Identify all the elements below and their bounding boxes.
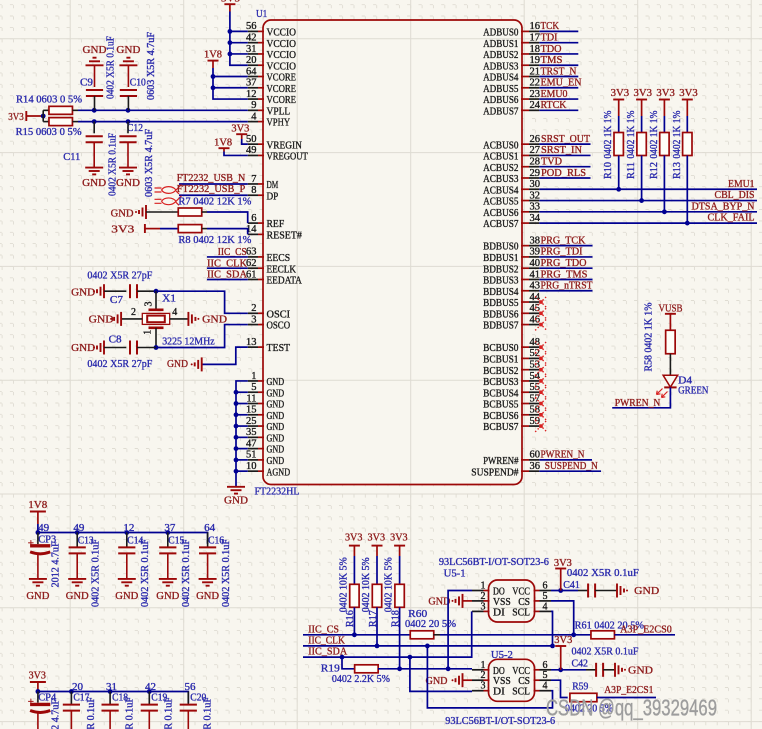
svg-text:PRG_TDI: PRG_TDI	[541, 246, 583, 258]
svg-text:DI: DI	[493, 686, 505, 698]
svg-text:R15 0603 0 5%: R15 0603 0 5%	[16, 126, 82, 138]
net label EMU1	[728, 178, 755, 190]
svg-text:GND: GND	[71, 342, 95, 354]
ground CP3	[26, 579, 49, 602]
svg-text:3V3: 3V3	[656, 87, 675, 99]
svg-text:3V3: 3V3	[111, 224, 135, 236]
svg-text:C8: C8	[109, 333, 122, 345]
svg-text:GND: GND	[116, 177, 140, 189]
svg-text:0402 10K 5%: 0402 10K 5%	[361, 557, 372, 612]
capacitor C18	[102, 692, 136, 729]
junction C11 C12 on VPHY	[92, 119, 131, 124]
capacitor C10	[120, 32, 157, 110]
power 1V8 VCORE	[204, 49, 222, 68]
svg-text:R14 0603 0 5%: R14 0603 0 5%	[16, 93, 82, 105]
wire net CLK_FAIL	[539, 222, 757, 224]
svg-text:0402 X5R 0.1uF: 0402 X5R 0.1uF	[181, 539, 192, 607]
resistor R10	[603, 110, 623, 189]
power 3V3 VREGIN	[231, 123, 249, 139]
svg-text:6: 6	[543, 660, 548, 671]
svg-text:0402 X5R 0.1uF: 0402 X5R 0.1uF	[91, 539, 102, 607]
svg-text:TEST: TEST	[267, 342, 291, 354]
wire U5-1 DO	[448, 591, 472, 669]
svg-text:26: 26	[530, 134, 541, 145]
junction crystal bottom	[154, 345, 159, 350]
svg-text:U5-1: U5-1	[444, 567, 466, 579]
svg-text:ADBUS5: ADBUS5	[483, 83, 519, 95]
watermark	[546, 695, 717, 721]
svg-text:R11: R11	[626, 162, 637, 179]
ground C14	[115, 579, 138, 602]
ground C7	[71, 284, 104, 298]
comment 93LC56BT top	[439, 556, 549, 568]
svg-text:PWREN_N: PWREN_N	[541, 449, 585, 461]
power 3V3 C41	[554, 557, 572, 591]
wire VREGIN	[242, 139, 248, 144]
wire U5-1 CS	[551, 601, 574, 635]
svg-text:23: 23	[530, 89, 541, 100]
net IIC_CS	[207, 246, 248, 258]
svg-text:1V8: 1V8	[204, 49, 222, 61]
node R14/R15 input	[41, 110, 46, 121]
svg-text:RTCK: RTCK	[541, 99, 567, 111]
power 3V3 R13	[679, 87, 698, 116]
svg-text:3V3: 3V3	[345, 532, 363, 544]
svg-text:18: 18	[530, 44, 541, 55]
crystal X1	[121, 291, 215, 347]
diff pair mark DM	[155, 185, 182, 195]
net label A3P_E2CS1	[604, 684, 653, 696]
svg-text:30: 30	[530, 179, 541, 190]
ground C15	[156, 579, 179, 602]
svg-text:0402 X5R 0.1uF: 0402 X5R 0.1uF	[86, 697, 97, 729]
svg-text:6: 6	[543, 581, 548, 592]
capacitor C8	[104, 333, 156, 354]
capacitor C41	[563, 567, 639, 598]
svg-text:0402 2.2K 5%: 0402 2.2K 5%	[332, 673, 390, 685]
svg-text:C42: C42	[572, 657, 589, 669]
svg-text:1V8: 1V8	[214, 136, 232, 148]
svg-text:ACBUS7: ACBUS7	[483, 218, 519, 230]
no-connect BDBUS5-7	[535, 296, 547, 330]
svg-text:R17: R17	[368, 610, 379, 627]
svg-text:BCBUS3: BCBUS3	[483, 376, 519, 388]
svg-text:EEDATA: EEDATA	[267, 275, 302, 287]
junction R10	[616, 187, 621, 192]
svg-text:1: 1	[481, 581, 486, 592]
capacitor C42	[572, 646, 639, 677]
svg-text:SUSPEND#: SUSPEND#	[471, 466, 519, 478]
svg-text:+: +	[28, 538, 34, 550]
wire R8 to RESET#	[207, 229, 248, 235]
svg-text:CBL_DIS: CBL_DIS	[715, 189, 755, 201]
svg-text:R58 0402 1K 1%: R58 0402 1K 1%	[644, 302, 655, 371]
svg-text:C7: C7	[110, 294, 123, 306]
wire U1 ground bus	[236, 381, 248, 487]
net SRST_IN	[539, 144, 590, 156]
power 3V3 R18	[390, 532, 408, 556]
wire IIC_CLK	[303, 644, 555, 649]
no-connect BCBUS0-7	[535, 341, 547, 432]
resistor R11	[626, 110, 646, 200]
svg-text:1: 1	[481, 660, 486, 671]
net FT2232_USB_P	[177, 183, 248, 195]
svg-text:2: 2	[481, 670, 486, 681]
svg-text:A3P_E2CS0: A3P_E2CS0	[620, 624, 672, 636]
svg-text:C11: C11	[63, 151, 80, 163]
svg-text:31: 31	[246, 44, 257, 55]
svg-text:34: 34	[530, 213, 541, 224]
svg-text:3V3: 3V3	[8, 111, 24, 123]
wire VPHY	[78, 121, 248, 123]
svg-text:GND: GND	[267, 432, 285, 444]
svg-text:PRG_TDO: PRG_TDO	[541, 257, 587, 269]
wire crystal bottom to OSCO	[156, 325, 248, 348]
junction 1V8 rail	[36, 530, 171, 535]
ground C42	[615, 663, 653, 677]
comment 93LC56BT bottom	[445, 715, 555, 727]
svg-text:VPLL: VPLL	[267, 105, 291, 117]
net SUSPEND_N	[539, 460, 601, 472]
svg-text:3V3: 3V3	[679, 87, 698, 99]
svg-text:0402 X5R 27pF: 0402 X5R 27pF	[87, 358, 152, 370]
wire IIC_SDA to U5-2 DI	[410, 657, 472, 691]
wire VCCIO bus	[230, 12, 248, 66]
svg-text:0402 1K 1%: 0402 1K 1%	[649, 110, 660, 158]
net TDO	[539, 43, 578, 55]
svg-text:EECS: EECS	[267, 252, 291, 264]
svg-text:GND: GND	[267, 410, 285, 422]
svg-text:AGND: AGND	[267, 466, 291, 478]
svg-text:ADBUS4: ADBUS4	[483, 72, 519, 84]
svg-text:U1: U1	[256, 8, 267, 20]
wire net CBL_DIS	[539, 200, 757, 202]
svg-text:1: 1	[143, 330, 154, 335]
svg-text:FT2232HL: FT2232HL	[255, 486, 300, 498]
capacitor C15	[159, 533, 192, 608]
svg-text:3V3: 3V3	[611, 87, 630, 99]
svg-text:CLK_FAIL: CLK_FAIL	[708, 212, 755, 224]
junction VCORE	[211, 74, 216, 90]
svg-text:3: 3	[481, 601, 486, 612]
svg-text:33: 33	[530, 202, 541, 213]
net label CBL_DIS	[715, 189, 755, 201]
net PRG_TDI	[539, 246, 592, 258]
wire IIC_SDA	[303, 611, 472, 659]
wire net EMU1	[539, 188, 757, 190]
ground U5-2 VSS	[426, 673, 473, 687]
svg-text:BCBUS7: BCBUS7	[483, 421, 519, 433]
net EMU_EN	[539, 77, 581, 89]
svg-text:R16: R16	[345, 610, 356, 627]
svg-text:R13: R13	[672, 162, 683, 179]
svg-text:2: 2	[481, 591, 486, 602]
resistor R59	[565, 680, 656, 714]
resistor R18	[384, 556, 405, 669]
net IIC_SDA	[207, 269, 248, 281]
wire net DTSA_BYP_N	[539, 211, 757, 213]
wire DO net	[397, 666, 472, 671]
svg-text:ACBUS1: ACBUS1	[483, 151, 518, 163]
power 1V8 bank	[28, 499, 47, 524]
svg-text:VCORE: VCORE	[267, 72, 297, 84]
net TMS	[539, 54, 578, 66]
svg-text:VCCIO: VCCIO	[267, 60, 297, 72]
svg-text:2012 4.7uF: 2012 4.7uF	[51, 699, 62, 729]
resistor R15	[16, 118, 82, 138]
svg-text:0603 X5R 4.7uF: 0603 X5R 4.7uF	[144, 129, 155, 197]
wire IIC_CLK to U5-2 SCL	[427, 646, 552, 708]
svg-text:0402 X5R 0.1uF: 0402 X5R 0.1uF	[140, 539, 151, 607]
wire U5-1 SCL	[551, 611, 553, 646]
resistor R7	[146, 195, 251, 216]
junction VCCIO	[228, 29, 233, 56]
ground U5-1 VSS	[428, 594, 472, 608]
svg-text:FT2232_USB_N: FT2232_USB_N	[177, 172, 246, 184]
svg-text:CSDN @qq_39329469: CSDN @qq_39329469	[546, 695, 717, 721]
svg-text:41: 41	[530, 269, 541, 280]
svg-text:GND: GND	[267, 376, 285, 388]
net SRST_OUT	[539, 133, 590, 145]
svg-text:ADBUS0: ADBUS0	[483, 27, 519, 39]
svg-text:12: 12	[123, 523, 134, 534]
net label IIC_SDA bottom	[308, 646, 347, 658]
svg-text:7: 7	[251, 174, 256, 185]
svg-text:GND: GND	[634, 585, 659, 597]
svg-text:16: 16	[530, 21, 541, 32]
svg-text:3V3: 3V3	[231, 123, 249, 135]
svg-text:5: 5	[251, 382, 256, 393]
svg-text:GND: GND	[111, 207, 134, 219]
ground C12	[116, 168, 140, 189]
svg-text:1V8: 1V8	[28, 499, 47, 511]
power VUSB	[659, 303, 683, 321]
svg-text:36: 36	[530, 461, 541, 472]
ground C9	[83, 44, 107, 87]
wire 1V8 rail	[38, 524, 208, 544]
svg-text:0402 X5R 0.1uF: 0402 X5R 0.1uF	[164, 697, 175, 729]
svg-text:RESET#: RESET#	[267, 229, 303, 241]
svg-text:GND: GND	[115, 590, 138, 602]
svg-text:3V3: 3V3	[554, 634, 572, 646]
svg-text:SRST_OUT: SRST_OUT	[541, 133, 590, 145]
wire TEST to ground	[202, 347, 248, 364]
capacitor C13	[69, 533, 102, 608]
svg-text:GND: GND	[26, 590, 49, 602]
svg-text:1: 1	[251, 371, 256, 382]
svg-text:BCBUS5: BCBUS5	[483, 399, 519, 411]
diff pair mark DP	[155, 196, 182, 206]
svg-text:0402 X5R 27pF: 0402 X5R 27pF	[87, 270, 152, 282]
svg-text:3: 3	[481, 681, 486, 692]
svg-text:ADBUS3: ADBUS3	[483, 60, 519, 72]
net TRST_N	[539, 65, 578, 77]
ground X1 pin4	[188, 312, 227, 326]
svg-text:GND: GND	[267, 421, 285, 433]
power 3V3 bank	[29, 670, 47, 692]
svg-text:R7 0402 12K 1%: R7 0402 12K 1%	[178, 195, 251, 207]
svg-text:0603 X5R 4.7uF: 0603 X5R 4.7uF	[146, 32, 157, 100]
wire VREGOUT	[224, 152, 248, 156]
svg-text:R8 0402 12K 1%: R8 0402 12K 1%	[178, 234, 251, 246]
svg-text:93LC56BT-I/OT-SOT23-6: 93LC56BT-I/OT-SOT23-6	[445, 715, 555, 727]
net label IIC_CLK bottom	[308, 635, 345, 647]
power 3V3 R17	[368, 532, 386, 556]
resistor R61	[575, 620, 675, 639]
ground U1	[224, 487, 248, 507]
svg-text:GND: GND	[202, 313, 227, 325]
svg-text:VPHY: VPHY	[267, 117, 291, 129]
svg-text:0402 X5R 0.1uF: 0402 X5R 0.1uF	[106, 36, 117, 99]
junction 3V3 rail	[36, 689, 152, 694]
wire U5-2 CS	[551, 680, 568, 697]
svg-text:VCCIO: VCCIO	[267, 49, 297, 61]
resistor R58	[644, 302, 676, 375]
svg-text:5: 5	[543, 670, 548, 681]
svg-text:SRST_IN: SRST_IN	[541, 144, 582, 156]
svg-text:PRG_TMS: PRG_TMS	[541, 268, 588, 280]
svg-text:40: 40	[530, 258, 541, 269]
svg-text:0402 X5R 0.1uF: 0402 X5R 0.1uF	[567, 567, 639, 579]
svg-text:BDBUS2: BDBUS2	[483, 263, 518, 275]
svg-text:19: 19	[530, 55, 541, 66]
net FT2232_USB_N	[177, 172, 248, 184]
power 3V3 R11	[634, 87, 653, 116]
capacitor CP3	[28, 533, 62, 588]
svg-text:GND: GND	[267, 399, 285, 411]
net PRG_TMS	[539, 268, 592, 280]
svg-text:GND: GND	[224, 494, 248, 506]
svg-text:GND: GND	[428, 596, 450, 608]
power 3V3 C42	[554, 634, 572, 670]
svg-text:R18: R18	[390, 610, 401, 627]
svg-text:BDBUS6: BDBUS6	[483, 308, 519, 320]
svg-text:0402 X5R 0.1uF: 0402 X5R 0.1uF	[221, 539, 232, 607]
svg-text:PRG_nTRST: PRG_nTRST	[541, 280, 593, 292]
svg-text:TVD: TVD	[541, 156, 562, 168]
svg-text:GND: GND	[267, 455, 285, 467]
svg-text:GND: GND	[83, 44, 107, 56]
svg-text:39: 39	[530, 247, 541, 258]
svg-text:BDBUS1: BDBUS1	[483, 252, 518, 264]
ground C11	[82, 168, 106, 189]
net label A3P_E2CS0	[620, 624, 672, 636]
power 3V3 R8	[111, 224, 160, 236]
svg-text:VREGOUT: VREGOUT	[267, 151, 309, 163]
svg-text:DM: DM	[267, 179, 279, 191]
svg-text:EMU0: EMU0	[541, 88, 568, 100]
ground TEST	[167, 357, 202, 371]
svg-text:22: 22	[530, 78, 541, 89]
svg-text:VCORE: VCORE	[267, 94, 297, 106]
net POD_RLS	[539, 167, 590, 179]
svg-text:PRG_TCK: PRG_TCK	[541, 234, 586, 246]
net RTCK	[539, 99, 578, 111]
svg-text:ACBUS0: ACBUS0	[483, 139, 519, 151]
net PRG_TCK	[539, 234, 592, 246]
svg-text:SCL: SCL	[512, 606, 530, 618]
svg-text:3: 3	[144, 302, 155, 307]
wire VPLL	[78, 109, 248, 111]
svg-text:ADBUS2: ADBUS2	[483, 49, 518, 61]
wire U5-1 VCC	[551, 588, 578, 593]
svg-text:OSCI: OSCI	[267, 308, 291, 320]
svg-text:VCCIO: VCCIO	[267, 38, 297, 50]
capacitor C20	[180, 692, 214, 729]
svg-text:BDBUS4: BDBUS4	[483, 286, 519, 298]
svg-text:EECLK: EECLK	[267, 263, 297, 275]
junction crystal top	[154, 289, 159, 294]
comment C8 value bottom	[87, 358, 152, 370]
net PRG_TDO	[539, 257, 592, 269]
power 3V3 R14	[8, 111, 43, 123]
wire VCORE bus	[213, 68, 248, 99]
LED D4	[657, 375, 709, 398]
svg-text:TDO: TDO	[541, 43, 562, 55]
svg-text:DTSA_BYP_N: DTSA_BYP_N	[692, 200, 755, 212]
net TCK	[539, 20, 578, 32]
IC U1 FT2232HL	[246, 8, 541, 498]
svg-text:93LC56BT-I/OT-SOT23-6: 93LC56BT-I/OT-SOT23-6	[439, 556, 549, 568]
ground C13	[66, 579, 89, 602]
svg-text:3V3: 3V3	[634, 87, 653, 99]
svg-text:27: 27	[530, 145, 541, 156]
svg-text:VREGIN: VREGIN	[267, 139, 302, 151]
net PWREN_N	[539, 449, 592, 461]
svg-text:48: 48	[530, 337, 541, 348]
capacitor C17	[63, 692, 97, 729]
node numbers 3V3 rail	[72, 682, 196, 693]
svg-text:60: 60	[530, 450, 541, 461]
svg-text:0402 1K 1%: 0402 1K 1%	[672, 110, 683, 158]
svg-text:GREEN: GREEN	[678, 385, 708, 397]
capacitor CP4	[28, 692, 62, 729]
svg-text:VCCIO: VCCIO	[267, 27, 297, 39]
wire R60 to CS pins	[440, 632, 592, 637]
svg-text:3V3: 3V3	[390, 532, 408, 544]
svg-text:BCBUS0: BCBUS0	[483, 342, 519, 354]
svg-text:4: 4	[543, 601, 548, 612]
capacitor C19	[141, 692, 175, 729]
svg-text:24: 24	[530, 100, 541, 111]
svg-text:C9: C9	[80, 77, 93, 89]
svg-text:21: 21	[530, 66, 541, 77]
svg-text:TMS: TMS	[541, 54, 563, 66]
capacitor C16	[199, 533, 232, 608]
svg-text:9: 9	[251, 100, 256, 111]
svg-text:GND: GND	[267, 387, 285, 399]
junction ground bus	[234, 390, 239, 474]
net IIC_CLK	[207, 257, 248, 269]
svg-text:0402 X5R 0.1uF: 0402 X5R 0.1uF	[572, 646, 639, 658]
svg-text:GND: GND	[196, 590, 219, 602]
resistor R17	[361, 556, 382, 646]
svg-text:11: 11	[246, 393, 256, 404]
svg-text:44: 44	[530, 292, 541, 303]
svg-text:37: 37	[164, 523, 175, 534]
resistor R60	[405, 608, 456, 639]
svg-text:ADBUS1: ADBUS1	[483, 38, 518, 50]
svg-text:ACBUS2: ACBUS2	[483, 162, 518, 174]
net label CLK_FAIL	[708, 212, 755, 224]
svg-text:8: 8	[251, 185, 256, 196]
svg-text:SCL: SCL	[512, 686, 530, 698]
power 1V8 VREGOUT	[214, 136, 232, 151]
wire LED to PWREN_N	[612, 387, 670, 407]
svg-text:EMU_EN: EMU_EN	[541, 77, 582, 89]
svg-text:X1: X1	[162, 293, 176, 305]
svg-text:GND: GND	[156, 590, 179, 602]
